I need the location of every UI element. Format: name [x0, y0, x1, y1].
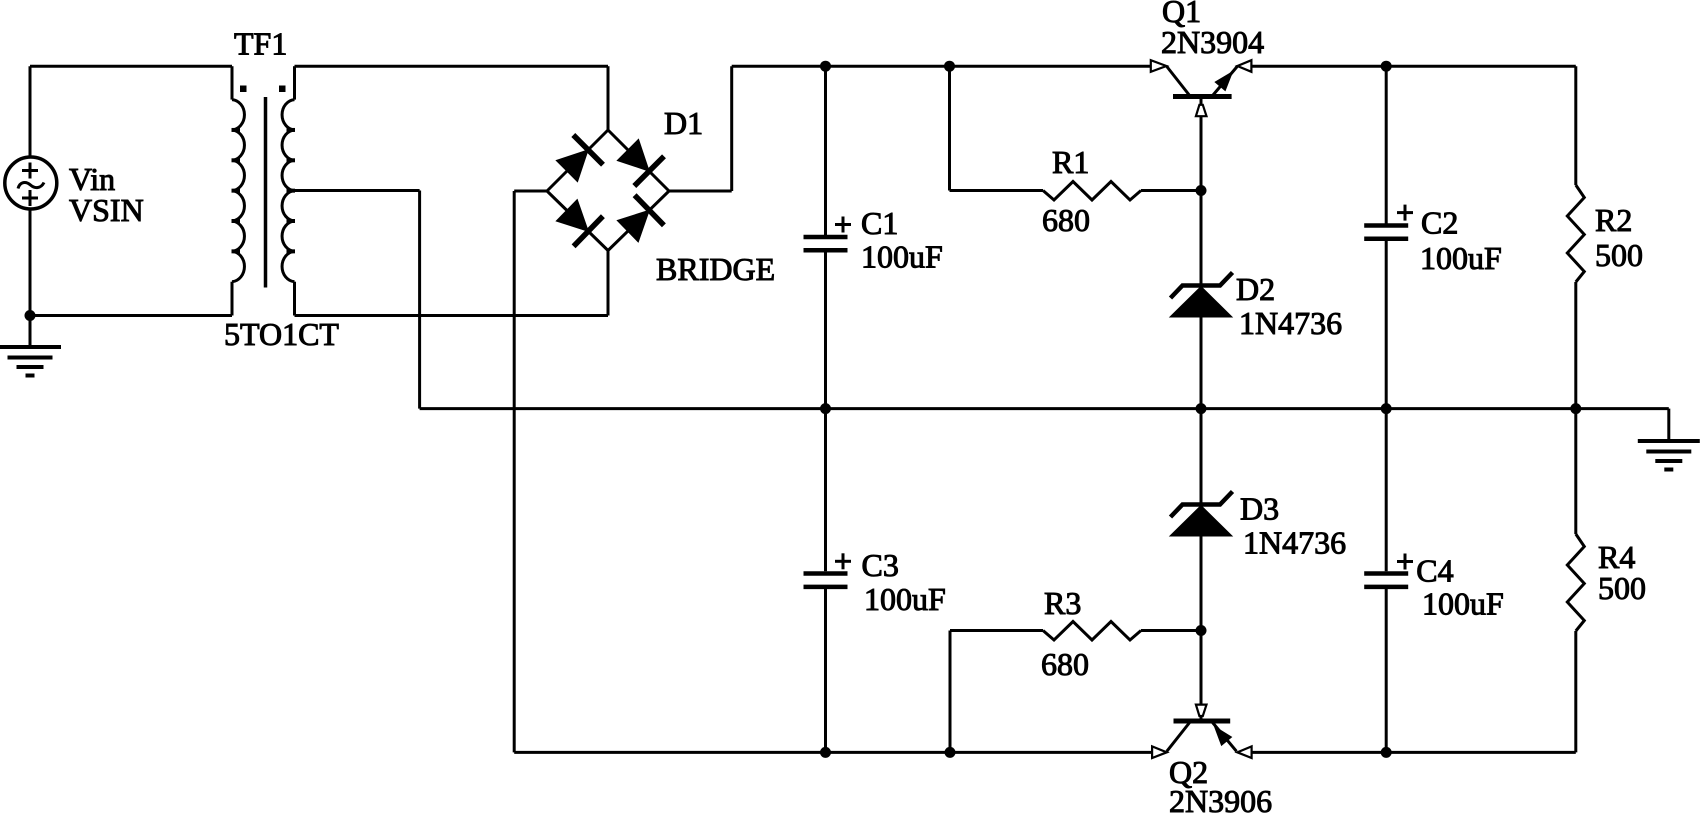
svg-text:100uF: 100uF: [1420, 240, 1502, 276]
svg-text:C4: C4: [1416, 553, 1453, 589]
svg-text:C1: C1: [861, 205, 898, 241]
svg-text:C2: C2: [1421, 205, 1458, 241]
svg-text:2N3906: 2N3906: [1169, 783, 1272, 814]
svg-text:R3: R3: [1044, 585, 1081, 621]
svg-text:500: 500: [1598, 570, 1646, 606]
svg-text:1N4736: 1N4736: [1243, 525, 1346, 561]
svg-text:1N4736: 1N4736: [1239, 305, 1342, 341]
svg-text:100uF: 100uF: [864, 581, 946, 617]
svg-text:2N3904: 2N3904: [1161, 24, 1264, 60]
svg-text:D3: D3: [1240, 491, 1279, 527]
svg-text:680: 680: [1041, 646, 1089, 682]
svg-text:500: 500: [1595, 237, 1643, 273]
svg-text:D2: D2: [1236, 271, 1275, 307]
svg-text:5TO1CT: 5TO1CT: [224, 316, 339, 352]
svg-text:R1: R1: [1052, 144, 1089, 180]
svg-text:R2: R2: [1595, 202, 1632, 238]
svg-text:100uF: 100uF: [861, 238, 943, 274]
svg-text:C3: C3: [862, 547, 899, 583]
svg-text:TF1: TF1: [234, 26, 287, 62]
svg-text:BRIDGE: BRIDGE: [656, 251, 775, 287]
svg-text:680: 680: [1042, 202, 1090, 238]
svg-text:VSIN: VSIN: [69, 192, 144, 228]
svg-text:100uF: 100uF: [1422, 586, 1504, 622]
svg-text:D1: D1: [664, 105, 703, 141]
